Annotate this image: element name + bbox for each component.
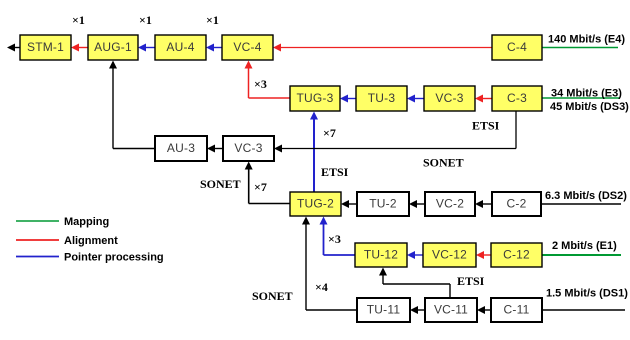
svg-text:6.3 Mbit/s (DS2): 6.3 Mbit/s (DS2) — [545, 190, 627, 202]
svg-text:×1: ×1 — [139, 13, 152, 27]
svg-text:VC-3: VC-3 — [435, 91, 463, 105]
svg-text:AUG-1: AUG-1 — [94, 40, 132, 54]
svg-text:TUG-3: TUG-3 — [297, 91, 334, 105]
svg-text:TU-3: TU-3 — [368, 91, 396, 105]
svg-text:Pointer processing: Pointer processing — [64, 252, 164, 264]
svg-text:Alignment: Alignment — [64, 235, 118, 247]
svg-text:VC-3: VC-3 — [234, 141, 262, 155]
svg-text:TU-11: TU-11 — [367, 302, 401, 316]
svg-text:×1: ×1 — [72, 13, 85, 27]
svg-text:×1: ×1 — [206, 13, 219, 27]
svg-text:1.5 Mbit/s (DS1): 1.5 Mbit/s (DS1) — [546, 287, 628, 299]
svg-text:×3: ×3 — [254, 77, 267, 91]
svg-text:STM-1: STM-1 — [27, 40, 64, 54]
svg-text:TUG-2: TUG-2 — [297, 196, 334, 210]
svg-text:×7: ×7 — [323, 126, 336, 140]
svg-text:140 Mbit/s (E4): 140 Mbit/s (E4) — [548, 33, 625, 45]
svg-text:TU-2: TU-2 — [369, 196, 397, 210]
svg-text:45 Mbit/s (DS3): 45 Mbit/s (DS3) — [550, 101, 629, 113]
svg-text:ETSI: ETSI — [321, 165, 349, 179]
svg-text:VC-2: VC-2 — [436, 196, 464, 210]
svg-text:ETSI: ETSI — [457, 274, 485, 288]
svg-text:×4: ×4 — [315, 280, 328, 294]
svg-text:VC-11: VC-11 — [434, 302, 468, 316]
svg-text:C-4: C-4 — [507, 40, 527, 54]
svg-text:C-2: C-2 — [507, 196, 527, 210]
svg-text:2 Mbit/s (E1): 2 Mbit/s (E1) — [552, 240, 617, 252]
svg-text:AU-4: AU-4 — [166, 40, 194, 54]
svg-text:VC-12: VC-12 — [432, 247, 467, 261]
svg-text:ETSI: ETSI — [472, 119, 500, 133]
svg-text:Mapping: Mapping — [64, 216, 109, 228]
svg-text:C-11: C-11 — [504, 302, 530, 316]
svg-text:SONET: SONET — [423, 155, 464, 169]
svg-text:34 Mbit/s (E3): 34 Mbit/s (E3) — [551, 88, 622, 100]
svg-text:×3: ×3 — [328, 232, 341, 246]
svg-text:AU-3: AU-3 — [167, 141, 195, 155]
svg-text:SONET: SONET — [252, 289, 293, 303]
svg-text:C-12: C-12 — [503, 247, 530, 261]
svg-text:SONET: SONET — [200, 177, 241, 191]
svg-text:TU-12: TU-12 — [364, 247, 398, 261]
svg-text:C-3: C-3 — [507, 91, 527, 105]
svg-text:VC-4: VC-4 — [233, 40, 261, 54]
svg-text:×7: ×7 — [254, 180, 267, 194]
